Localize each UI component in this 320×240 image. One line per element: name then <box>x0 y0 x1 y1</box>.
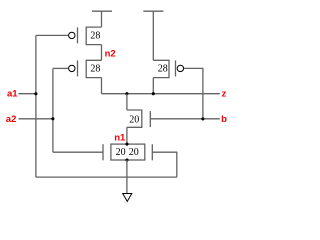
wire net n2 <box>101 45 103 61</box>
junction z / M4 drain <box>125 92 128 95</box>
wire a2 gate lead to M2 <box>53 67 68 69</box>
wire M3 drain to z <box>152 78 154 94</box>
wire vdd to M1 source <box>101 11 103 27</box>
wire a2 lead <box>19 118 53 120</box>
junction z / M3 drain <box>152 92 155 95</box>
wire a1 column <box>35 35 37 177</box>
pmos M3 bubble <box>177 65 183 71</box>
nmos M4 gate bar <box>149 111 151 127</box>
junction a2 <box>51 117 54 120</box>
svg-text:z: z <box>222 89 227 100</box>
junction box bottom <box>125 158 128 161</box>
nmos pair M5 M6 box <box>111 144 145 160</box>
pmos M3 gate bar <box>175 60 177 76</box>
svg-text:28: 28 <box>158 64 168 75</box>
wire M6 gate lead <box>152 152 177 177</box>
pmos M1 gate bar <box>77 27 79 43</box>
nmos M5 gate bar <box>102 144 104 160</box>
svg-text:20: 20 <box>116 147 126 158</box>
pmos M2 gate bar <box>77 60 79 76</box>
wire box to ground <box>126 160 128 194</box>
svg-text:20: 20 <box>129 114 139 125</box>
svg-text:n1: n1 <box>114 133 126 144</box>
wire M2 drain to z <box>101 78 103 94</box>
wire a1 bottom run <box>36 176 177 178</box>
svg-text:20: 20 <box>129 147 139 158</box>
pmos M1 channel <box>86 27 101 44</box>
pmos M1 bubble <box>69 32 75 38</box>
vdd supply bar right <box>143 10 163 12</box>
svg-text:a2: a2 <box>6 114 17 125</box>
wire b rail <box>150 118 220 120</box>
wire a1 gate lead to M1 <box>36 34 68 36</box>
pmos M2 channel <box>86 60 101 77</box>
junction n1 box top <box>125 143 128 146</box>
wire M3 gate lead <box>184 68 203 119</box>
wire M4 source to n1 <box>126 127 128 144</box>
svg-text:28: 28 <box>90 64 100 75</box>
svg-text:n2: n2 <box>105 48 116 59</box>
svg-text:b: b <box>221 114 227 125</box>
wire a1 lead <box>19 93 36 95</box>
pmos M3 channel <box>153 60 169 77</box>
junction b / M3 gate <box>201 117 204 120</box>
nmos M4 channel <box>127 110 142 127</box>
wire z to M4 <box>126 94 128 110</box>
wire a2 column <box>52 68 54 152</box>
junction a1 <box>34 92 37 95</box>
wire a2 to M5 gate <box>53 151 103 153</box>
nmos M6 gate bar <box>151 144 153 160</box>
ground symbol <box>123 194 132 202</box>
svg-text:28: 28 <box>90 31 100 42</box>
wire vdd to M3 source <box>152 11 154 60</box>
pmos M2 bubble <box>69 65 75 71</box>
vdd supply bar left <box>92 10 112 12</box>
svg-text:a1: a1 <box>7 89 18 100</box>
wire z rail <box>102 93 220 95</box>
